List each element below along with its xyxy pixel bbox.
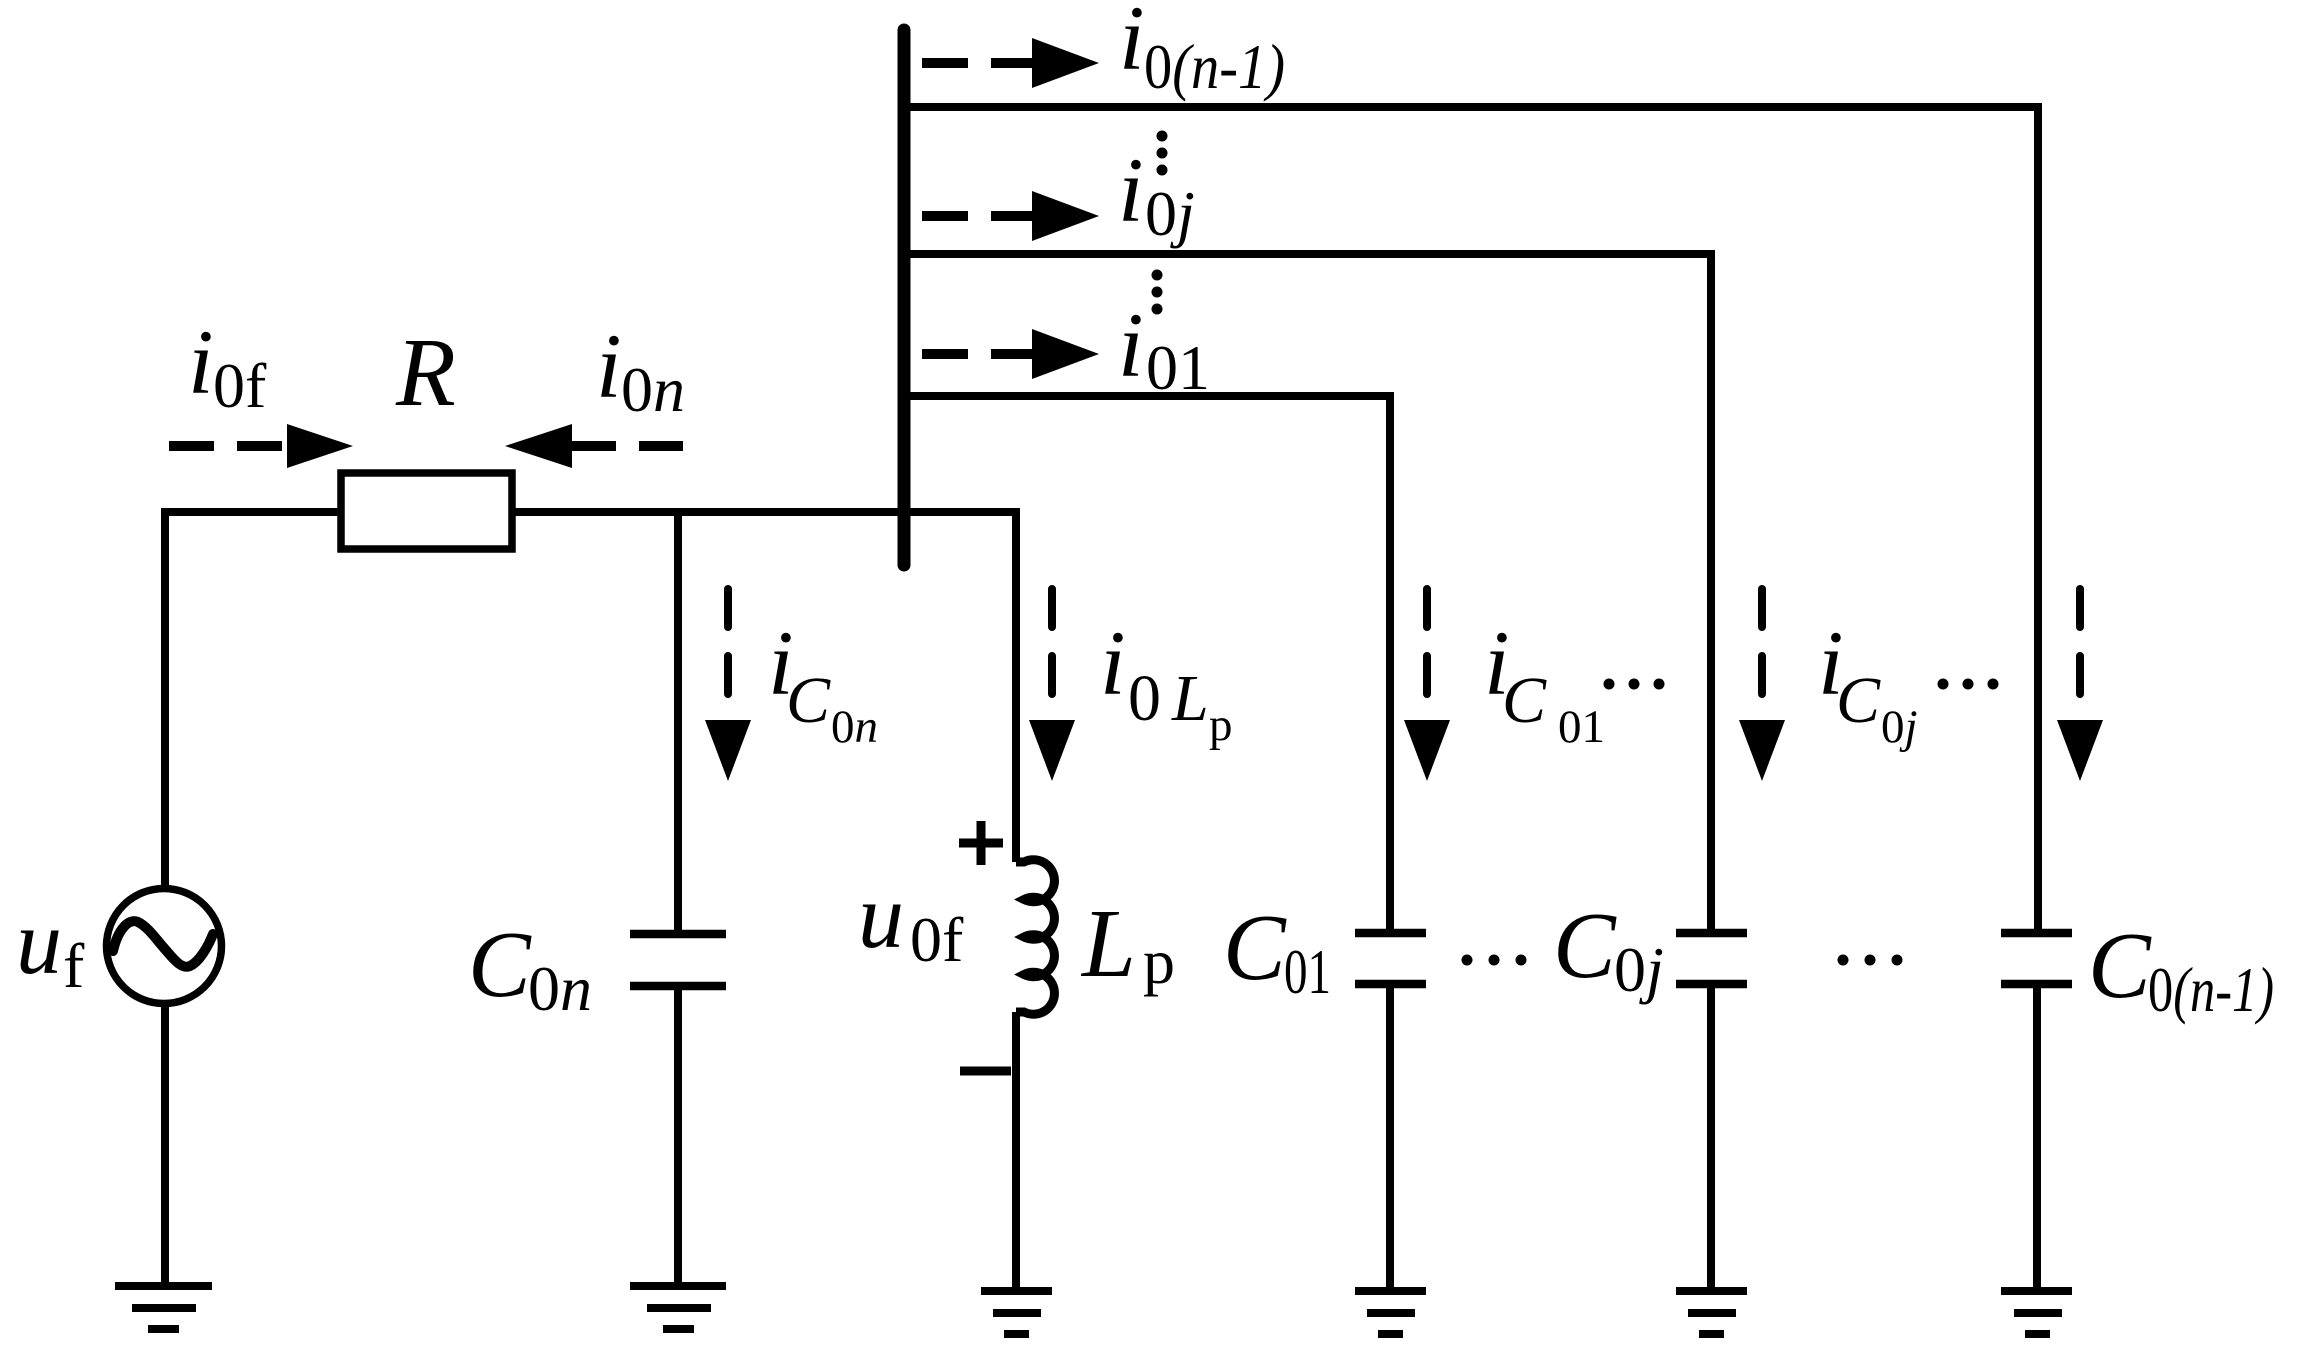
svg-text:0f: 0f	[910, 904, 964, 975]
svg-text:0j: 0j	[1881, 701, 1918, 753]
svg-text:01: 01	[1146, 332, 1210, 403]
label i0n	[596, 315, 685, 425]
label C0n	[468, 913, 592, 1024]
wire C01 lower	[1386, 984, 1394, 1292]
svg-text:0n: 0n	[621, 354, 685, 425]
vertical dots col2	[1152, 270, 1163, 315]
svg-text:0f: 0f	[213, 350, 267, 421]
resistor R	[341, 473, 512, 549]
svg-text:C: C	[1502, 664, 1547, 737]
ground (source)	[115, 1286, 212, 1329]
svg-text:0j: 0j	[1145, 178, 1195, 249]
wire C0(n-1) lower	[2033, 984, 2041, 1292]
ground (C0j)	[1676, 1291, 1747, 1334]
svg-text:0n: 0n	[528, 953, 592, 1024]
wire main horizontal	[161, 508, 338, 516]
svg-text:0j: 0j	[1614, 934, 1664, 1005]
arrow i0f (dashed, right)	[169, 424, 353, 468]
arrow i0Lp (dashed, down)	[1029, 589, 1075, 781]
svg-text:u: u	[858, 865, 904, 967]
svg-text:01: 01	[1284, 936, 1331, 1007]
wire left vertical upper	[161, 508, 169, 886]
ground (C01)	[1355, 1291, 1426, 1334]
wire row3 (to C01)	[904, 396, 1390, 931]
AC source u_f	[107, 889, 222, 1004]
svg-text:0(n-1): 0(n-1)	[2148, 954, 2274, 1025]
inductor Lp coil	[1016, 860, 1054, 1014]
svg-text:i: i	[1100, 612, 1126, 714]
arrow i01 (dashed, right)	[922, 329, 1099, 379]
label iC0n	[768, 612, 878, 753]
label i0j	[1118, 139, 1195, 249]
label i0Lp	[1100, 612, 1233, 751]
svg-text:C: C	[1223, 896, 1287, 1000]
svg-text:p: p	[1143, 926, 1175, 997]
svg-text:R: R	[395, 319, 456, 427]
label i0f	[188, 311, 267, 421]
wire C0j lower	[1707, 984, 1715, 1292]
label i01	[1118, 294, 1210, 403]
wire Lp branch lower	[1012, 1012, 1020, 1292]
arrow i0j (dashed, right)	[922, 191, 1099, 241]
svg-text:L: L	[1080, 890, 1136, 997]
label u0f	[858, 865, 964, 975]
svg-text:L: L	[1171, 662, 1209, 735]
wire Lp branch corner	[1012, 508, 1020, 862]
svg-text:C: C	[1553, 894, 1617, 998]
capacitor C0n	[630, 934, 726, 986]
dots between C01 and C0j	[1462, 955, 1527, 966]
minus sign (u0f polarity)	[960, 1067, 1011, 1076]
svg-text:p: p	[1209, 699, 1233, 751]
arrow iC0n (dashed, down)	[705, 589, 751, 781]
wire C0n branch upper	[674, 508, 682, 931]
svg-text:0(n-1): 0(n-1)	[1144, 31, 1285, 102]
bus bar node	[898, 30, 911, 565]
wire resistor to Lp corner	[515, 508, 1020, 516]
svg-text:0n: 0n	[831, 701, 878, 753]
wire C0n branch lower	[674, 986, 682, 1287]
capacitor C0(n-1)	[2001, 933, 2072, 984]
svg-text:i: i	[188, 311, 214, 413]
svg-text:C: C	[786, 664, 831, 737]
svg-text:0: 0	[1128, 662, 1161, 735]
wire left vertical lower	[161, 1004, 169, 1287]
dots after iC01	[1604, 679, 1665, 690]
label iC0j	[1818, 612, 1918, 753]
wire row2 (to C0j)	[904, 250, 1715, 931]
arrow iC0(n-1) (dashed, down)	[2057, 589, 2103, 781]
wire row1 (to C0(n-1))	[904, 103, 2042, 931]
label C0(n-1)	[2088, 914, 2274, 1025]
ground (C0n)	[630, 1286, 726, 1329]
label i0(n-1)	[1119, 0, 1285, 102]
label iC01	[1484, 612, 1605, 753]
svg-text:C: C	[2088, 914, 2152, 1018]
svg-text:01: 01	[1558, 701, 1605, 753]
vertical dots col1	[1157, 131, 1168, 176]
label C01	[1223, 896, 1331, 1007]
dots after iC0j	[1938, 679, 1999, 690]
arrow iC01 (dashed, down)	[1404, 589, 1450, 781]
label Lp	[1080, 890, 1175, 997]
label uf	[16, 891, 85, 1001]
arrow i0n (dashed, left)	[505, 424, 684, 468]
arrow i0(n-1) (dashed, right)	[922, 38, 1099, 88]
svg-text:i: i	[1118, 139, 1144, 241]
svg-text:f: f	[63, 930, 85, 1001]
ground (C0(n-1))	[2001, 1291, 2072, 1334]
ground (Lp)	[981, 1291, 1052, 1334]
svg-text:u: u	[16, 891, 62, 993]
svg-text:i: i	[1118, 294, 1144, 396]
svg-text:i: i	[1119, 0, 1145, 89]
svg-text:C: C	[1836, 664, 1881, 737]
plus sign (u0f polarity)	[959, 821, 1003, 865]
arrow iC0j (dashed, down)	[1739, 589, 1785, 781]
svg-text:i: i	[596, 315, 622, 417]
svg-text:C: C	[468, 913, 532, 1017]
dots between C0j and C0(n-1)	[1838, 955, 1903, 966]
capacitor C01	[1355, 933, 1426, 984]
capacitor C0j	[1676, 933, 1747, 984]
label C0j	[1553, 894, 1664, 1005]
